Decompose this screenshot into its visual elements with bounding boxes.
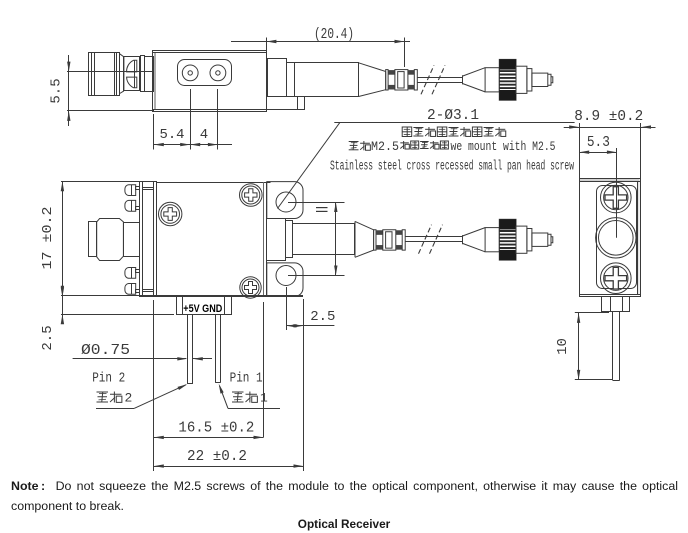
- dimension (20.4) (top view): [266, 38, 268, 51]
- dimension between ear holes: [288, 202, 345, 204]
- top view: fiber crimp sleeve: [386, 70, 418, 90]
- title: [0, 517, 688, 531]
- front view: upper mounting ear: [267, 182, 303, 219]
- front view: fiber crimp sleeve: [374, 230, 406, 250]
- top view: hole circle left: [182, 65, 198, 81]
- top view: connector taper: [120, 54, 124, 94]
- label yinjiao2 (CJK): [97, 391, 109, 393]
- svg-text:we mount with M2.5: we mount with M2.5: [451, 139, 556, 154]
- top view: hole circle right: [210, 65, 226, 81]
- svg-text:2.5: 2.5: [40, 325, 56, 350]
- side view: pin lead: [612, 312, 614, 381]
- datum equals mark: [316, 207, 328, 209]
- front view: terminal block: [177, 297, 232, 315]
- svg-text:+5V GND: +5V GND: [183, 303, 222, 315]
- front view: connector neck: [124, 223, 140, 257]
- CJK note line 2 with latin: [349, 141, 359, 143]
- front view: module front plate: [140, 182, 157, 297]
- dimension 5.3: [579, 152, 617, 154]
- front view: fiber with break: [405, 236, 462, 238]
- label yinjiao1 (CJK): [232, 391, 244, 393]
- side view: inner rounded frame: [597, 186, 637, 289]
- svg-text:2.5: 2.5: [310, 309, 335, 325]
- top view: left coax connector cylinder: [89, 53, 120, 96]
- svg-text:17 ±0.2: 17 ±0.2: [40, 207, 56, 270]
- dimension 17 +-0.2 (front view left): [61, 181, 140, 183]
- front view: pin 1 lead: [215, 315, 217, 383]
- top view: snout cone: [359, 63, 386, 97]
- leader for pin 1: [228, 408, 280, 410]
- dim 4 right arrow: [208, 143, 218, 146]
- top view: rounded slot: [178, 60, 232, 86]
- front view: lower ear hole: [276, 266, 296, 286]
- top view: body left edge shade: [154, 53, 156, 109]
- svg-text:5.3: 5.3: [587, 135, 610, 151]
- side view: lens circle: [596, 218, 636, 258]
- svg-text:(20.4): (20.4): [314, 27, 354, 43]
- top view: FC connector: [463, 59, 553, 100]
- front view: left screw side profile (top): [125, 185, 136, 196]
- front view: phillips screw U3: [240, 277, 261, 298]
- svg-text:10: 10: [555, 338, 571, 355]
- top view: module body outline: [153, 51, 267, 112]
- fiber break symbol: [419, 225, 432, 254]
- dimension 22 +-0.2: [303, 299, 305, 471]
- fiber break symbol: [421, 65, 434, 94]
- side view: bottom phillips screw: [601, 263, 632, 294]
- svg-text:2: 2: [125, 391, 133, 406]
- dimension 10 (pin length): [575, 312, 609, 314]
- side view: top phillips screw: [601, 182, 632, 213]
- front view: pin 2 lead: [187, 315, 189, 384]
- dimension 5.4 (top view): [153, 114, 155, 150]
- top view: connector nut with clip arcs: [124, 57, 140, 91]
- top view: mounting ear tab: [267, 97, 305, 110]
- front view: lower mounting ear: [267, 263, 303, 297]
- svg-text:5.5: 5.5: [49, 78, 65, 103]
- front view: coax connector barrel: [97, 219, 124, 261]
- dimension O0.75 pin diameter: [73, 358, 187, 360]
- svg-text:22 ±0.2: 22 ±0.2: [187, 449, 247, 465]
- top view: snout collar: [268, 59, 287, 97]
- svg-text:5.4: 5.4: [160, 127, 185, 143]
- front view: phillips screw U1: [159, 202, 182, 225]
- svg-text:M2.5: M2.5: [371, 139, 399, 154]
- svg-text:Pin 2: Pin 2: [92, 371, 125, 387]
- leader line to 2-O3.1 note: [278, 122, 341, 208]
- front view: body bottom double line: [140, 295, 303, 297]
- dimension 2.5 (front view left): [61, 295, 140, 297]
- CJK note line 1: [402, 127, 412, 137]
- front view: upper ear hole: [276, 192, 296, 212]
- front view: snout step collar: [267, 219, 286, 261]
- front view: FC connector: [463, 219, 553, 260]
- front view: module body: [157, 183, 267, 297]
- side view: base tab: [602, 297, 630, 312]
- top view: connector back plate: [139, 57, 141, 91]
- front view: snout cone: [355, 221, 374, 257]
- dimension 16.5 +-0.2: [153, 300, 155, 471]
- dimension 5.5 (top view, left): [67, 71, 154, 73]
- top view: snout barrel: [295, 63, 359, 97]
- leader for pin 2: [96, 408, 134, 410]
- dim 4 left arrow: [190, 143, 200, 146]
- bottom note text: [11, 476, 678, 516]
- svg-text:Pin 1: Pin 1: [230, 371, 263, 387]
- svg-text:2-Ø3.1: 2-Ø3.1: [427, 108, 479, 124]
- svg-text:4: 4: [200, 127, 208, 143]
- svg-text:8.9 ±0.2: 8.9 ±0.2: [574, 109, 643, 125]
- svg-text:Ø0.75: Ø0.75: [81, 342, 130, 359]
- dimension 2.5 (ear offset): [286, 287, 288, 330]
- svg-text:16.5 ±0.2: 16.5 ±0.2: [178, 421, 254, 437]
- front view: phillips screw U2: [240, 184, 263, 207]
- top view: fiber with break: [417, 77, 462, 79]
- side view: body: [580, 179, 640, 182]
- front view: snout barrel: [293, 224, 355, 255]
- front view: left screw side profile (bottom): [125, 268, 136, 279]
- front view: connector cap: [89, 222, 97, 257]
- dimension 8.9 +-0.2: [579, 123, 581, 179]
- svg-text:Stainless steel cross recessed: Stainless steel cross recessed small pan…: [330, 160, 574, 175]
